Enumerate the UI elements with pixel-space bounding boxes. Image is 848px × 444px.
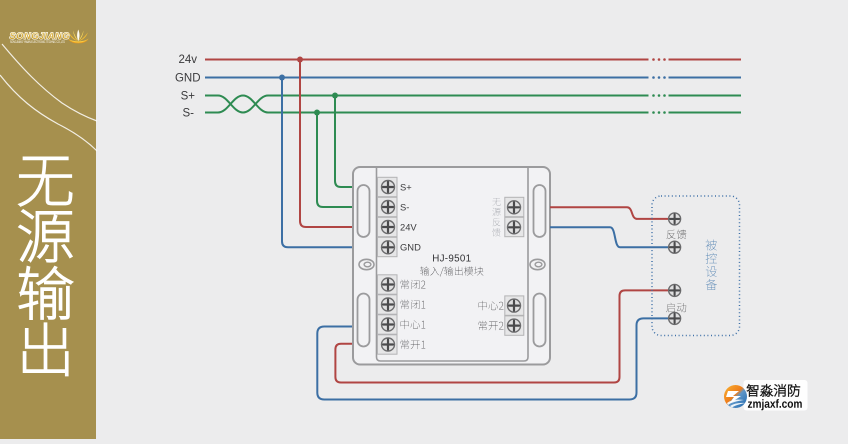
terminal cell feedback A xyxy=(505,197,524,216)
terminal screw feedback B xyxy=(508,221,521,234)
junction node on GND bus xyxy=(279,75,285,81)
svg-text:S-: S- xyxy=(183,108,195,120)
terminal GND cell xyxy=(378,237,398,256)
pin label 常开1 xyxy=(401,340,426,349)
svg-text:24V: 24V xyxy=(400,221,417,232)
wire S+ bus (twisted pair upper) xyxy=(205,96,741,113)
terminal screw 启动- xyxy=(669,312,681,324)
terminal screw S+ xyxy=(382,181,395,194)
wire GND bus break dots xyxy=(652,76,666,79)
terminal 中心1 cell xyxy=(378,315,398,334)
wire S+ bus break dots xyxy=(652,94,666,97)
logo Z mark xyxy=(726,391,741,404)
module mounting slot bottom-right xyxy=(534,294,546,347)
terminal 常开2 cell xyxy=(505,316,524,335)
logo circle xyxy=(724,385,747,408)
terminal 中心2 cell xyxy=(505,296,524,315)
terminal screw 启动+ xyxy=(669,284,681,296)
module name 输入/输出模块 xyxy=(420,266,483,276)
terminal screw feedback A xyxy=(508,201,521,214)
lotus flower icon xyxy=(68,30,89,44)
junction node on S+ bus xyxy=(332,93,338,99)
module mounting slot top-left xyxy=(358,185,370,237)
svg-text:S+: S+ xyxy=(400,181,412,192)
logo url zmjaxf.com xyxy=(748,399,802,410)
module mounting slot bottom-left xyxy=(358,294,370,347)
svg-text:GND: GND xyxy=(400,242,421,253)
terminal 24V cell xyxy=(378,217,398,236)
banner background xyxy=(0,0,96,439)
wire feedback A (red) xyxy=(550,207,668,219)
label 启动 (start) xyxy=(666,303,686,312)
label 反馈 (feedback) xyxy=(667,230,687,240)
terminal screw 常开2 xyxy=(508,319,521,332)
svg-text:SONGJIANG YIWAN ELECTRONIC TEC: SONGJIANG YIWAN ELECTRONIC TECHNIC CO.,L… xyxy=(10,40,65,44)
wire NO1 to start (red loop) xyxy=(335,290,668,382)
banner vertical title 无源输出 xyxy=(19,157,72,375)
terminal S- cell xyxy=(378,197,398,216)
wire S- drop to module S- xyxy=(317,113,353,208)
banner decorative curve 2 xyxy=(0,75,97,151)
terminal screw 反馈- xyxy=(669,241,681,253)
terminal screw GND xyxy=(382,241,395,254)
logo text 智淼消防 xyxy=(747,384,800,396)
terminal screw 常开1 xyxy=(382,338,395,351)
terminal S+ cell xyxy=(378,177,398,196)
junction node on S- bus xyxy=(314,110,320,116)
label 无源反馈 (passive feedback) xyxy=(492,198,500,237)
wire 24v bus break dots xyxy=(652,58,666,61)
banner decorative curve 1 xyxy=(2,44,97,121)
module side screw left xyxy=(359,259,374,269)
terminal screw 常闭2 xyxy=(382,278,395,291)
wire COM1 to start (blue loop) xyxy=(317,318,668,399)
wire feedback B (blue) xyxy=(550,227,668,247)
pin label 中心1 xyxy=(401,320,426,329)
svg-text:GND: GND xyxy=(175,73,201,85)
wire S+ drop to module S+ xyxy=(335,96,353,188)
svg-text:HJ-9501: HJ-9501 xyxy=(432,254,471,265)
label 被控设备 (controlled device) xyxy=(706,239,717,290)
wire S- bus break dots xyxy=(652,111,666,114)
logo halo xyxy=(744,380,808,411)
wire GND bus xyxy=(205,77,741,79)
svg-text:S+: S+ xyxy=(181,91,196,103)
junction node on 24v bus xyxy=(297,57,303,63)
pin label 常闭1 xyxy=(401,300,426,309)
pin label 常闭2 xyxy=(401,280,426,289)
pin label 常开2 xyxy=(479,321,504,330)
terminal screw 中心2 xyxy=(508,299,521,312)
controlled device box 被控设备 xyxy=(652,196,740,336)
terminal screw S- xyxy=(382,201,395,214)
terminal cell feedback B xyxy=(505,217,524,236)
svg-text:24v: 24v xyxy=(178,54,197,66)
terminal screw 常闭1 xyxy=(382,298,395,311)
svg-text:S-: S- xyxy=(400,201,409,212)
module mounting slot top-right xyxy=(534,185,546,237)
terminal 常闭2 cell xyxy=(378,275,398,294)
wire 24v drop to module 24V xyxy=(300,60,353,228)
module side screw right xyxy=(530,259,545,269)
wire S- bus (twisted pair lower) xyxy=(205,96,741,113)
module inner frame xyxy=(377,167,529,361)
terminal 常开1 cell xyxy=(378,335,398,354)
wire 24v bus xyxy=(205,59,741,61)
wire GND drop to module GND xyxy=(282,78,353,248)
pin label 中心2 xyxy=(479,301,504,310)
terminal screw 反馈+ xyxy=(669,213,681,225)
terminal screw 24V xyxy=(382,221,395,234)
terminal 常闭1 cell xyxy=(378,295,398,314)
module U1 HJ-9501 body xyxy=(353,167,550,365)
terminal screw 中心1 xyxy=(382,318,395,331)
